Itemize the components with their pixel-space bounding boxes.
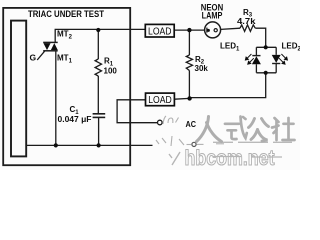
wire: MT2 lead up and top wire to LOAD xyxy=(55,29,145,42)
LED1 (points up) xyxy=(252,56,261,65)
watermark: dashed line over characters row xyxy=(213,141,292,143)
test socket rectangle xyxy=(11,21,26,157)
LED2 leads xyxy=(275,47,277,73)
wire: R2 branch xyxy=(188,30,190,98)
svg-text:LOAD: LOAD xyxy=(148,26,172,37)
LOAD box 2 xyxy=(146,93,175,106)
neon lamp NE1 xyxy=(205,22,221,38)
watermark: partial character strokes (erased 120V text remnants) xyxy=(156,116,191,146)
LED1 light arrows xyxy=(245,54,253,64)
resistor R1 zigzag xyxy=(95,59,101,76)
outer box TRIAC UNDER TEST xyxy=(3,8,130,165)
wire: LOAD1 right to junction to neon lamp xyxy=(174,29,204,31)
triac right triangle (up) xyxy=(51,43,58,50)
wire: neon lamp to R3 xyxy=(221,28,240,29)
capacitor C1 xyxy=(93,114,106,118)
LED2 light arrows xyxy=(279,54,287,64)
watermark: character 入 xyxy=(197,117,222,142)
junction node: MT1 bottom rail xyxy=(54,143,58,147)
AC terminal 1 xyxy=(158,120,163,125)
wire: bottom rail xyxy=(26,144,153,146)
watermark: character 社 xyxy=(272,118,295,140)
triac Q1 under test xyxy=(37,42,58,60)
triac top bar xyxy=(43,41,58,43)
wire: LED bottom return to LOAD2 junction xyxy=(190,73,266,98)
watermark: faint dashes right of AC terminal 2 xyxy=(197,143,225,146)
junction node: R1 top xyxy=(96,28,100,32)
wire: C1 to bottom rail xyxy=(98,118,100,146)
watermark: fragment before URL xyxy=(169,152,180,165)
wire: R1 to C1 xyxy=(97,76,99,113)
LED2 (points down) xyxy=(272,55,281,64)
wire: MT1 lead down xyxy=(55,51,57,146)
AC terminal 2 (faint under watermark) xyxy=(192,142,196,146)
watermark: character 式 xyxy=(225,117,247,140)
junction node: LOAD1/lamp/R2 xyxy=(187,28,191,32)
wire: R3 to corner down to LED top node xyxy=(255,28,265,47)
svg-text:TRIAC UNDER TEST: TRIAC UNDER TEST xyxy=(28,9,104,20)
watermark: strike dashes over URL xyxy=(213,156,282,159)
junction node: C1 bottom rail xyxy=(97,143,101,147)
resistor R3 zigzag xyxy=(240,25,255,32)
resistor R2 zigzag xyxy=(186,55,192,71)
svg-text:LAMP: LAMP xyxy=(202,11,223,21)
LOAD box 1 xyxy=(145,24,174,37)
wire: R1 branch top xyxy=(97,30,99,59)
watermark: character 公 xyxy=(249,119,269,142)
svg-text:4.7k: 4.7k xyxy=(237,17,256,26)
svg-text:hbcom.net: hbcom.net xyxy=(185,146,275,170)
junction node: LED top xyxy=(264,45,268,49)
svg-text:0.047 μF: 0.047 μF xyxy=(58,115,92,124)
LED bottom rail xyxy=(256,72,276,74)
svg-text:AC: AC xyxy=(186,119,197,129)
svg-text:100: 100 xyxy=(104,66,118,75)
triac left triangle (down) xyxy=(43,43,50,50)
LED1 leads xyxy=(255,47,257,73)
LED top rail xyxy=(256,46,276,48)
junction node: LOAD2/R2 bottom xyxy=(187,96,191,100)
wire: junction to LOAD2 right xyxy=(174,97,189,100)
triac bottom bar xyxy=(43,50,58,52)
svg-text:30k: 30k xyxy=(195,64,209,73)
LED pair rails xyxy=(256,47,276,73)
svg-text:LOAD: LOAD xyxy=(148,95,172,106)
wire: LOAD2 left entering box, down, out to AC terminal 1 xyxy=(117,100,157,123)
svg-text:G: G xyxy=(30,53,37,63)
junction node: LED bottom xyxy=(264,71,268,75)
gate lead xyxy=(37,51,44,60)
